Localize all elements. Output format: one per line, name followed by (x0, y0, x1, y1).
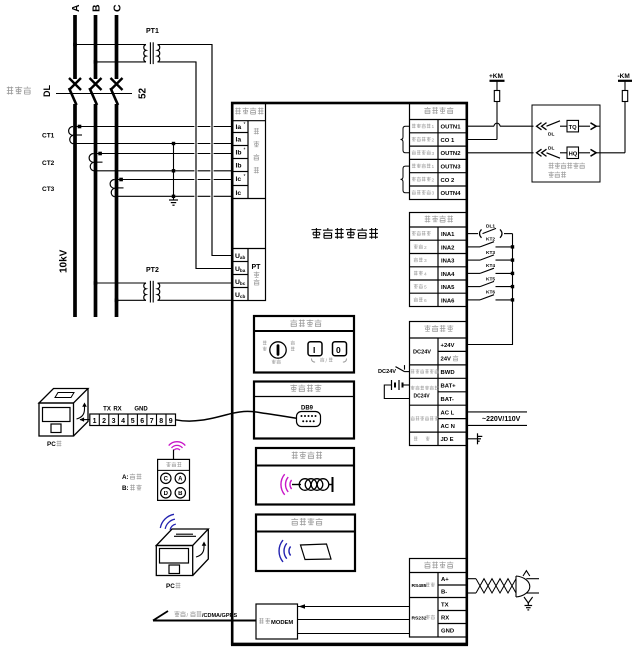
svg-text:JD E: JD E (441, 437, 454, 443)
svg-text:BAT-: BAT- (441, 397, 454, 403)
svg-text:BWD: BWD (441, 370, 455, 376)
svg-text:DL: DL (42, 85, 52, 97)
svg-text:INA3: INA3 (441, 259, 455, 265)
svg-text:MODEM: MODEM (271, 620, 293, 626)
svg-text:GND: GND (441, 629, 454, 635)
svg-text:Uba: Uba (235, 266, 246, 273)
svg-text:INA2: INA2 (441, 245, 455, 251)
svg-text:OUTN1: OUTN1 (441, 125, 462, 131)
svg-text:KT3: KT3 (486, 250, 495, 256)
svg-text:CT3: CT3 (42, 186, 55, 193)
svg-text:HQ: HQ (569, 151, 578, 157)
svg-text:I: I (313, 345, 315, 355)
svg-text:5: 5 (131, 418, 135, 425)
svg-text:A: A (178, 477, 183, 483)
svg-text:OUTN2: OUTN2 (441, 151, 462, 157)
svg-text:Ic: Ic (236, 190, 242, 197)
svg-text:2: 2 (102, 418, 106, 425)
svg-text:8: 8 (159, 418, 163, 425)
svg-text:RS232: RS232 (412, 616, 427, 622)
svg-text:*: * (244, 174, 246, 180)
svg-text:1: 1 (93, 418, 97, 425)
svg-text:52: 52 (138, 87, 149, 99)
svg-text:7: 7 (150, 418, 154, 425)
svg-text:A:: A: (122, 474, 129, 481)
svg-text:B: B (178, 491, 183, 497)
svg-text:Ucb: Ucb (235, 292, 245, 299)
svg-text:INA5: INA5 (441, 285, 455, 291)
svg-text:DL: DL (548, 132, 554, 138)
svg-text:~220V/110V: ~220V/110V (482, 416, 521, 423)
svg-text:RS485: RS485 (412, 583, 427, 589)
svg-text:+24V: +24V (441, 343, 455, 349)
svg-text:+KM: +KM (489, 73, 503, 80)
svg-text:OUTN3: OUTN3 (441, 165, 462, 171)
svg-text:CO 2: CO 2 (441, 178, 455, 184)
svg-text:5: 5 (424, 285, 427, 291)
svg-text:4: 4 (424, 271, 427, 277)
svg-text:Ia: Ia (236, 124, 242, 131)
svg-text:2: 2 (432, 138, 435, 144)
svg-text:1: 1 (432, 124, 435, 130)
svg-text:KT6: KT6 (486, 290, 495, 296)
svg-text:B: B (91, 4, 103, 12)
svg-text:KT4: KT4 (486, 263, 495, 269)
svg-text:C: C (164, 477, 169, 483)
svg-text:A+: A+ (441, 577, 449, 583)
svg-text:INA6: INA6 (441, 298, 455, 304)
svg-text:INA1: INA1 (441, 232, 455, 238)
svg-text:Uab: Uab (235, 253, 245, 260)
svg-text:CT1: CT1 (42, 133, 55, 140)
svg-text:AC L: AC L (441, 410, 455, 416)
svg-text:GND: GND (134, 407, 148, 413)
svg-text:24V: 24V (441, 357, 452, 363)
svg-text:PT2: PT2 (146, 267, 159, 274)
svg-text:9: 9 (169, 418, 173, 425)
svg-text:2: 2 (432, 177, 435, 183)
svg-text:3: 3 (432, 191, 435, 197)
svg-text:/CDMA/GPRS: /CDMA/GPRS (202, 613, 237, 619)
svg-text:DC24V: DC24V (413, 350, 431, 356)
svg-text:INA4: INA4 (441, 272, 455, 278)
svg-text:DC24V: DC24V (414, 393, 431, 399)
svg-text:*: * (244, 148, 246, 154)
svg-text:6: 6 (424, 298, 427, 304)
svg-text:B-: B- (441, 590, 447, 596)
svg-text:CO 1: CO 1 (441, 138, 455, 144)
svg-text:2: 2 (424, 245, 427, 251)
svg-text:DB9: DB9 (301, 406, 314, 412)
svg-text:DL1: DL1 (486, 223, 495, 229)
svg-text:10kV: 10kV (59, 249, 70, 273)
svg-text:0: 0 (336, 345, 341, 355)
svg-text:RX: RX (441, 615, 449, 621)
svg-text:3: 3 (432, 151, 435, 157)
svg-text:Ubc: Ubc (235, 279, 246, 286)
svg-text:TX: TX (103, 407, 111, 413)
svg-text:-KM: -KM (618, 73, 630, 80)
svg-text:Ic: Ic (236, 176, 242, 183)
svg-text:4: 4 (121, 418, 125, 425)
svg-text:B:: B: (122, 485, 129, 492)
svg-text:OUTN4: OUTN4 (441, 191, 462, 197)
svg-text:D: D (164, 491, 169, 497)
svg-text:TX: TX (441, 602, 449, 608)
svg-text:CT2: CT2 (42, 160, 55, 167)
svg-text:C: C (112, 4, 124, 12)
svg-text:PC: PC (47, 441, 56, 448)
svg-text:Ib: Ib (236, 163, 242, 170)
svg-text:KT2: KT2 (486, 237, 495, 243)
svg-text:3: 3 (424, 258, 427, 264)
svg-text:AC N: AC N (441, 424, 455, 430)
svg-text:1: 1 (432, 164, 435, 170)
svg-text:A: A (70, 4, 82, 12)
svg-text:PT: PT (252, 264, 262, 271)
svg-text:TQ: TQ (569, 125, 578, 131)
svg-text:DC24V: DC24V (378, 369, 396, 375)
svg-text:RX: RX (113, 407, 121, 413)
svg-text:3: 3 (112, 418, 116, 425)
svg-text:PT1: PT1 (146, 28, 159, 35)
svg-text:PC: PC (166, 583, 175, 590)
svg-text:Ia: Ia (236, 137, 242, 144)
svg-text:*: * (244, 122, 246, 128)
svg-text:6: 6 (140, 418, 144, 425)
svg-text:BAT+: BAT+ (441, 383, 457, 389)
svg-text:DL: DL (548, 145, 554, 151)
svg-text:KT5: KT5 (486, 276, 495, 282)
svg-text:Ib: Ib (236, 150, 242, 157)
